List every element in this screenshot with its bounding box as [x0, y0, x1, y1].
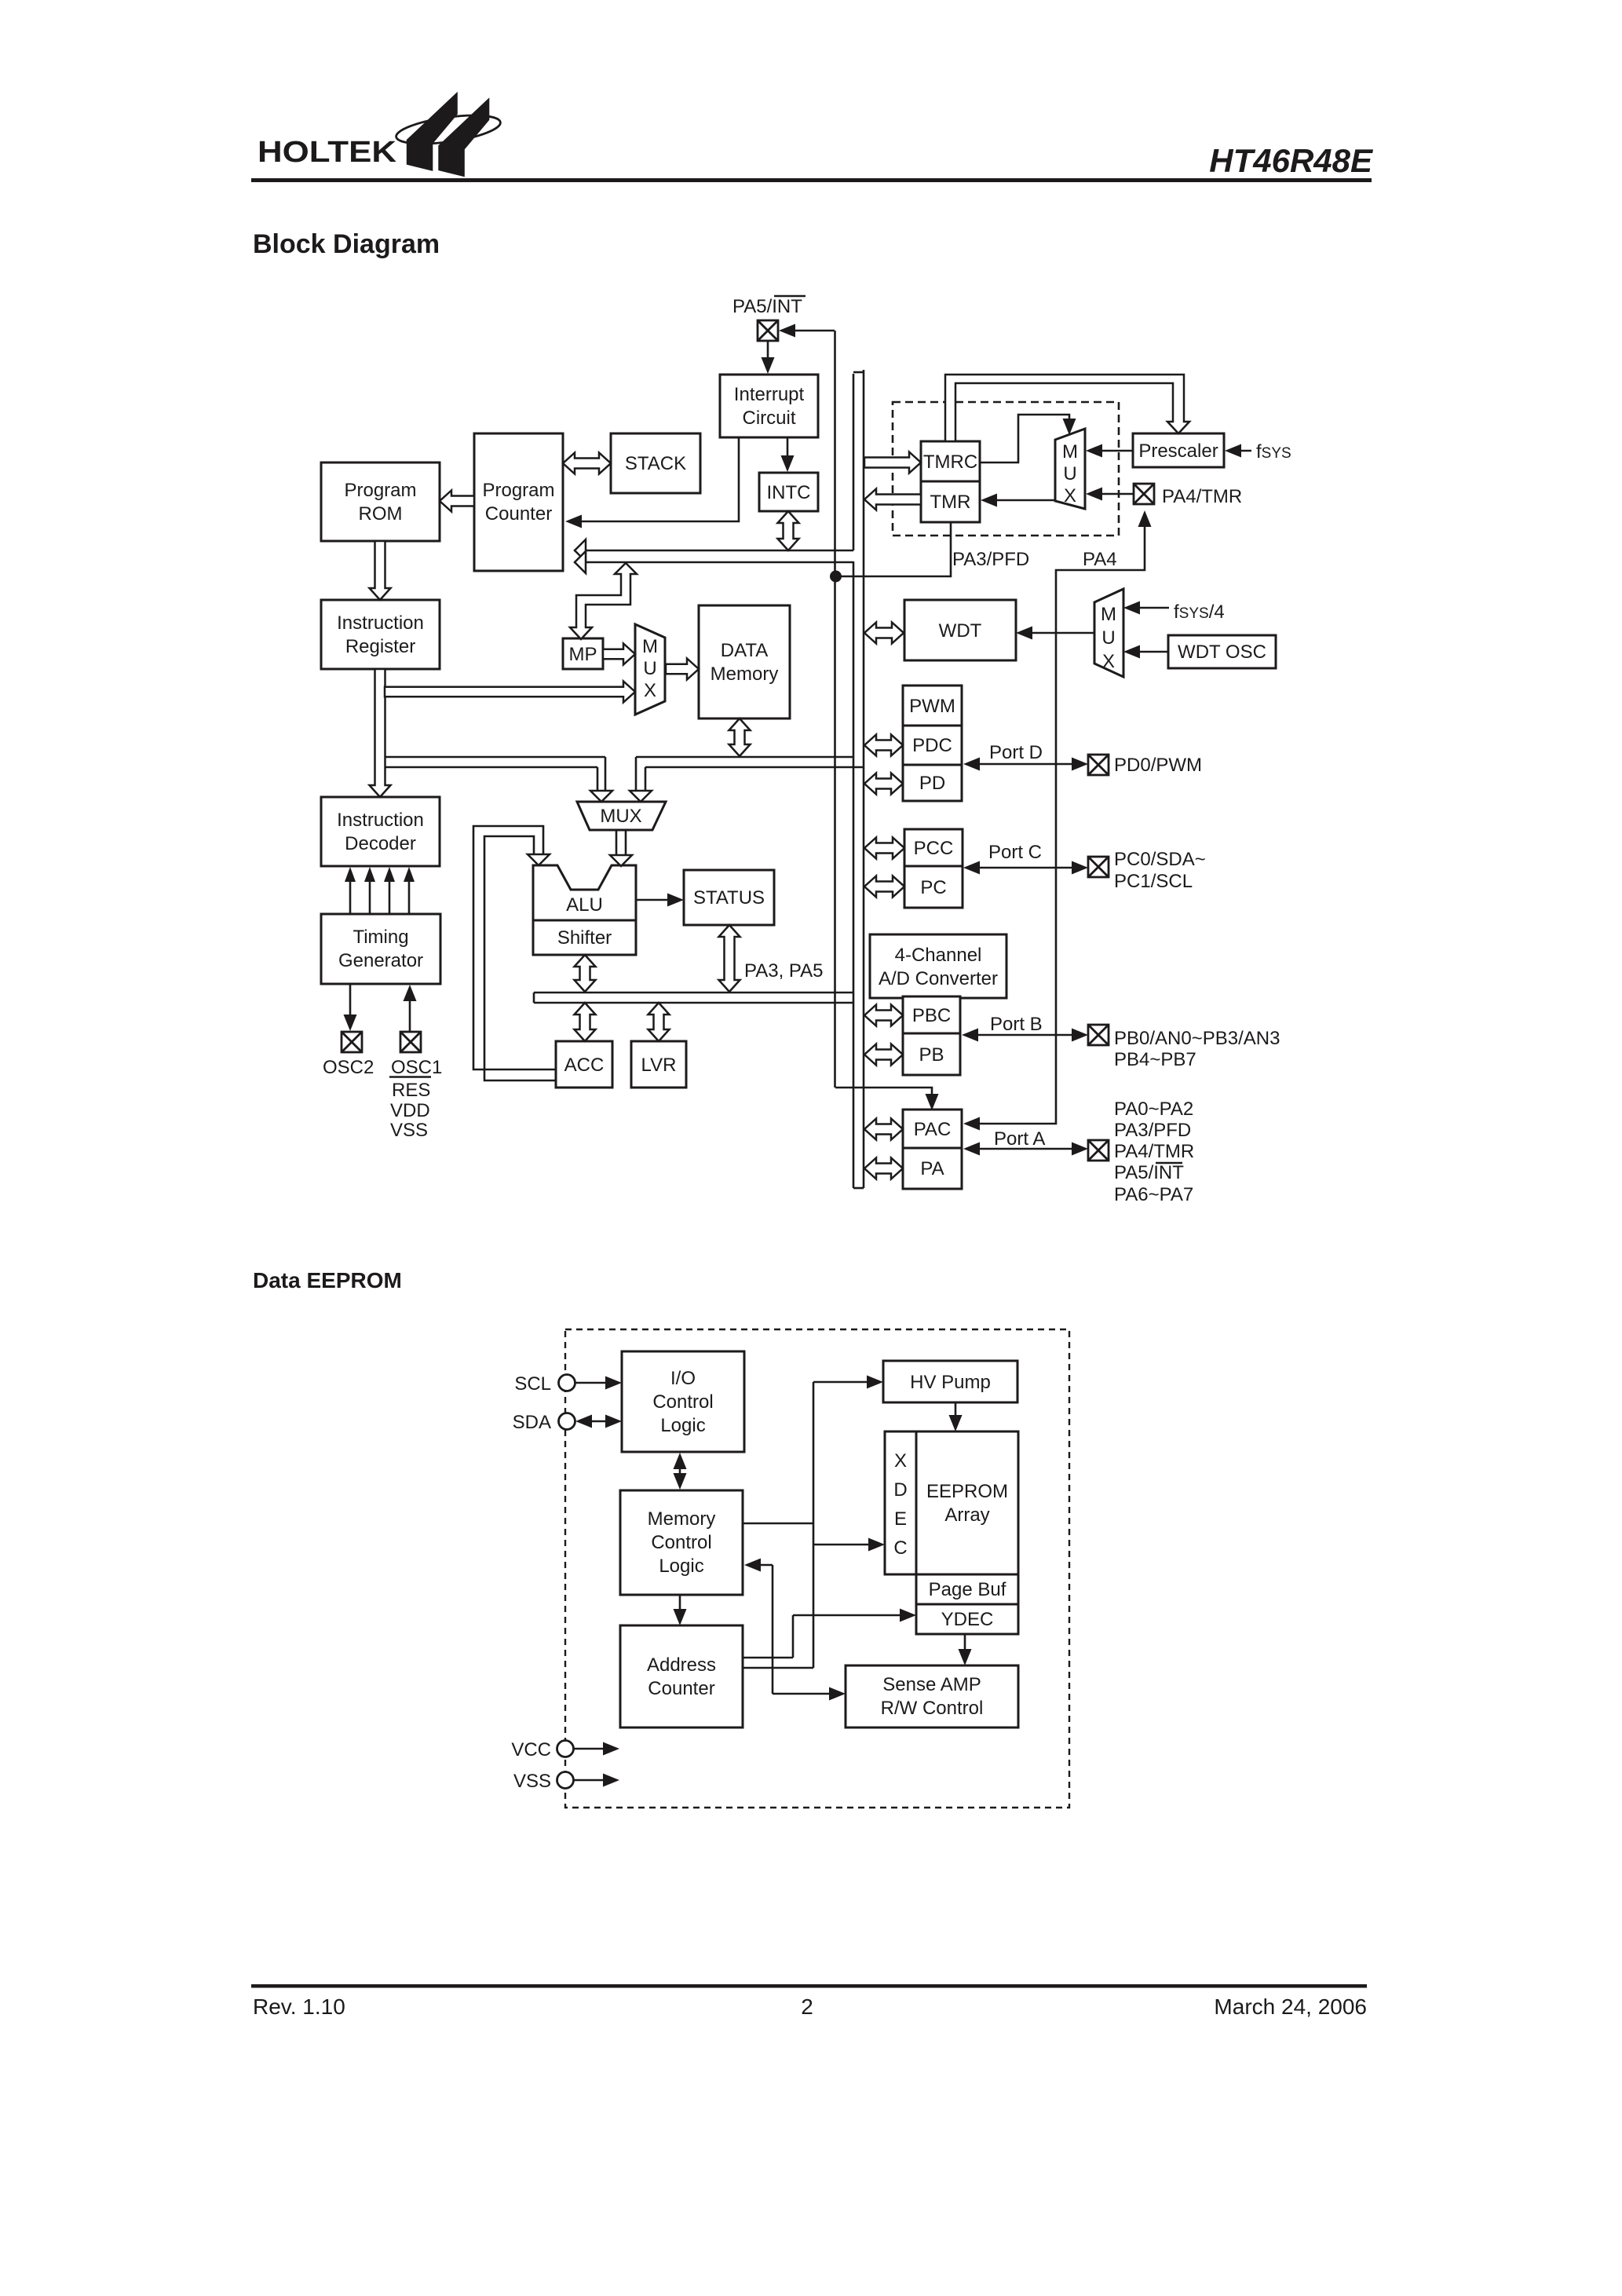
svg-text:Generator: Generator: [338, 950, 423, 971]
svg-text:TMR: TMR: [930, 492, 971, 513]
svg-text:PA4/TMR: PA4/TMR: [1162, 486, 1242, 507]
register TMR: [921, 481, 980, 522]
svg-text:PA5/INT: PA5/INT: [732, 296, 802, 317]
mux MUX2 (ALU operand mux): [577, 802, 666, 830]
svg-text:PC: PC: [920, 877, 946, 898]
svg-text:ACC: ACC: [564, 1055, 605, 1076]
svg-text:PDC: PDC: [912, 735, 952, 756]
bus program rom to instruction register: [370, 541, 391, 600]
pad PC0/PC1: [1088, 857, 1109, 877]
wire address counter to riser: [743, 1667, 813, 1669]
svg-text:March 24, 2006: March 24, 2006: [1214, 1994, 1367, 2019]
svg-text:STATUS: STATUS: [693, 887, 765, 909]
wire HV pump riser: [813, 1382, 815, 1668]
svg-text:Program: Program: [344, 480, 416, 501]
bus program counter to stack: [563, 453, 611, 474]
svg-text:ROM: ROM: [359, 503, 403, 525]
svg-text:WDT OSC: WDT OSC: [1178, 642, 1266, 663]
svg-text:PB0/AN0~PB3/AN3: PB0/AN0~PB3/AN3: [1114, 1028, 1280, 1049]
bus instruction register to instruction decoder: [370, 669, 391, 797]
svg-text:OSC2: OSC2: [323, 1057, 374, 1078]
wire ydec branch vertical: [792, 1615, 795, 1658]
bus internal bus to PAC: [864, 1119, 903, 1140]
wire OSC1 to timing generator: [409, 996, 411, 1032]
block WDT OSC: [1168, 635, 1276, 668]
bus operand corner into MUX2 left: [605, 757, 607, 790]
svg-text:E: E: [894, 1508, 907, 1530]
svg-text:Instruction: Instruction: [337, 612, 424, 634]
register PD: [903, 765, 962, 801]
svg-text:PA3/PFD: PA3/PFD: [952, 549, 1029, 570]
block Instruction Register: [321, 600, 440, 669]
svg-text:HV Pump: HV Pump: [910, 1372, 991, 1393]
bus internal bus to PCC: [864, 838, 904, 859]
svg-text:PD0/PWM: PD0/PWM: [1114, 755, 1202, 776]
wire Port B: [970, 1034, 1080, 1036]
svg-text:X: X: [894, 1450, 907, 1472]
wire riser to XDEC: [813, 1544, 875, 1546]
svg-text:PB4~PB7: PB4~PB7: [1114, 1049, 1196, 1070]
junction dot PA3/PFD to PA5 rail: [830, 571, 842, 583]
header rule: [251, 178, 1372, 182]
bus internal bus to TMRC: [864, 452, 921, 473]
wire ALU to STATUS: [636, 899, 673, 901]
pad PA0-PA7: [1088, 1140, 1109, 1161]
wire VSS stub: [574, 1779, 609, 1782]
wire feedback to memory control: [754, 1564, 773, 1567]
svg-text:X: X: [1064, 485, 1076, 506]
svg-text:PA: PA: [920, 1158, 944, 1179]
register PCC: [904, 829, 963, 866]
wire feedback to sense amp: [773, 1693, 835, 1695]
svg-text:Instruction: Instruction: [337, 810, 424, 831]
svg-text:HOLTEK: HOLTEK: [258, 136, 397, 169]
wire interrupt circuit to program counter: [578, 437, 739, 521]
svg-text:fSYS: fSYS: [1256, 441, 1291, 462]
wire pad PA4 to MUX3: [1094, 493, 1134, 495]
bus rail left edge lower: [853, 561, 855, 1188]
svg-text:Control: Control: [652, 1391, 713, 1413]
svg-text:Block Diagram: Block Diagram: [253, 229, 440, 259]
wire SDA to I/O control: [585, 1420, 612, 1423]
svg-text:STACK: STACK: [625, 453, 686, 474]
bus ACC recirculation to ALU: [473, 826, 556, 1069]
svg-text:ALU: ALU: [566, 894, 603, 916]
HOLTEK logo mark: [394, 92, 502, 177]
block Address Counter: [620, 1625, 743, 1727]
block Memory Control Logic: [620, 1490, 743, 1595]
wire timing generator to OSC2: [349, 984, 352, 1021]
block LVR: [631, 1041, 686, 1088]
block HV Pump: [883, 1361, 1017, 1402]
svg-text:YDEC: YDEC: [941, 1609, 994, 1630]
bus operand lower line right: [645, 766, 863, 769]
block STATUS: [684, 870, 774, 925]
wire ydec branch to YDEC: [793, 1614, 906, 1617]
bus internal bus to MP: [570, 563, 637, 639]
wire MUX4 to WDT: [1024, 632, 1094, 634]
pad PA4/TMR: [1134, 484, 1154, 504]
svg-text:EEPROM: EEPROM: [926, 1481, 1008, 1502]
block EEPROM Array: [916, 1431, 1018, 1574]
block I/O Control Logic: [622, 1351, 744, 1452]
svg-text:U: U: [643, 658, 656, 679]
svg-text:Control: Control: [651, 1532, 711, 1553]
svg-text:VSS: VSS: [390, 1120, 428, 1141]
svg-text:D: D: [893, 1479, 907, 1501]
timer module dashed box: [893, 402, 1119, 536]
svg-text:Port D: Port D: [989, 742, 1043, 763]
svg-text:Program: Program: [482, 480, 554, 501]
block Instruction Decoder: [321, 797, 440, 866]
svg-text:INTC: INTC: [767, 482, 811, 503]
pad PD0/PWM: [1088, 755, 1109, 775]
svg-text:DATA: DATA: [721, 640, 768, 661]
wire WDT OSC to MUX4: [1131, 651, 1168, 653]
svg-text:2: 2: [801, 1994, 813, 2019]
svg-text:Register: Register: [345, 636, 415, 657]
pin SDA: [559, 1413, 575, 1430]
bus rail right edge: [863, 370, 865, 1188]
bus MUX1 to data memory: [666, 659, 699, 680]
svg-text:X: X: [1102, 651, 1115, 672]
svg-text:Memory: Memory: [711, 664, 779, 685]
wire PA4 line: [972, 514, 1145, 1124]
wire interrupt circuit to INTC: [787, 437, 789, 460]
wire riser to HV pump: [813, 1381, 873, 1384]
wire TMRC to MUX3: [980, 415, 1069, 462]
wire YDEC to sense amp: [964, 1634, 966, 1655]
block Page Buf: [916, 1574, 1018, 1604]
svg-text:Page Buf: Page Buf: [929, 1579, 1006, 1600]
svg-text:WDT: WDT: [939, 620, 982, 642]
svg-text:Circuit: Circuit: [742, 408, 795, 429]
svg-text:Logic: Logic: [660, 1415, 705, 1436]
bus line A to program counter: [574, 550, 853, 552]
block INTC: [759, 473, 818, 511]
svg-text:Counter: Counter: [485, 503, 552, 525]
svg-text:Timing: Timing: [353, 927, 408, 948]
bus instruction register to MUX1: [385, 682, 635, 703]
pin VCC: [557, 1741, 574, 1757]
wire memory control to address counter: [679, 1595, 681, 1616]
bus TMRC to prescaler loop: [945, 375, 1189, 441]
bus line B to program counter: [574, 561, 853, 564]
wire pad PA5 to interrupt circuit: [767, 341, 769, 361]
block STACK: [611, 433, 700, 493]
svg-text:RES: RES: [392, 1080, 430, 1101]
register PC: [904, 866, 963, 908]
bus internal bus to WDT: [864, 623, 904, 644]
pin SCL: [559, 1375, 575, 1391]
svg-text:U: U: [1063, 463, 1076, 484]
bus TMR to internal bus: [864, 489, 921, 510]
svg-text:VDD: VDD: [390, 1100, 430, 1121]
wire PA5 rail to PAC top: [835, 1088, 932, 1106]
svg-text:fSYS/4: fSYS/4: [1174, 601, 1225, 623]
svg-text:LVR: LVR: [641, 1055, 677, 1076]
bus STATUS to data bus: [719, 925, 740, 992]
svg-text:M: M: [1062, 441, 1078, 462]
svg-text:U: U: [1101, 627, 1115, 649]
block DATA Memory: [699, 605, 790, 718]
ALU unit: [533, 865, 636, 920]
block MP: [563, 638, 603, 669]
svg-text:Address: Address: [647, 1654, 716, 1676]
bus data bus to LVR: [648, 1003, 670, 1041]
mux MUX1 (data memory address mux): [635, 624, 665, 715]
svg-text:M: M: [642, 636, 658, 657]
svg-text:VCC: VCC: [511, 1739, 551, 1760]
svg-text:PBC: PBC: [912, 1005, 951, 1026]
bus ALU data bus upper line: [534, 992, 853, 994]
svg-text:A/D Converter: A/D Converter: [879, 968, 998, 989]
block ACC: [556, 1041, 612, 1088]
bus data memory to operand bus: [729, 718, 751, 756]
register PA: [903, 1148, 962, 1189]
wire prescaler to MUX3: [1094, 450, 1133, 452]
bus shifter to data bus: [575, 955, 596, 992]
svg-text:OSC1: OSC1: [391, 1057, 442, 1078]
pad OSC1: [400, 1032, 421, 1052]
bus MUX2 to ALU: [616, 830, 618, 857]
svg-text:Port A: Port A: [994, 1128, 1045, 1150]
register PBC: [903, 996, 960, 1033]
block XDEC: [885, 1431, 916, 1574]
wire timing generator to instruction decoder: [349, 878, 352, 914]
svg-text:4-Channel: 4-Channel: [895, 945, 982, 966]
svg-text:PC0/SDA~: PC0/SDA~: [1114, 849, 1206, 870]
bus internal bus to PA: [864, 1158, 903, 1179]
bus rail left edge upper: [853, 374, 855, 550]
pad PB0-PB7: [1088, 1025, 1109, 1045]
wire memory control to HV pump net: [743, 1523, 813, 1525]
svg-text:R/W Control: R/W Control: [881, 1698, 984, 1719]
svg-text:PA6~PA7: PA6~PA7: [1114, 1184, 1193, 1205]
block Timing Generator: [321, 914, 440, 984]
bus INTC to internal bus: [778, 511, 799, 550]
bus internal bus to PB: [864, 1044, 903, 1066]
svg-text:Port C: Port C: [988, 842, 1042, 863]
bus operand corner into MUX2 right: [635, 757, 637, 790]
register TMRC: [921, 441, 980, 481]
svg-text:VSS: VSS: [513, 1771, 551, 1792]
wire MUX3 to TMR: [988, 499, 1055, 502]
mux MUX4 (WDT clock mux): [1094, 589, 1123, 677]
svg-text:M: M: [1101, 604, 1116, 625]
block 4-Channel A/D Converter: [870, 934, 1006, 998]
svg-text:PA3, PA5: PA3, PA5: [744, 960, 824, 982]
svg-text:Interrupt: Interrupt: [734, 384, 805, 405]
pin VSS: [557, 1772, 574, 1789]
wire Port C: [972, 867, 1080, 869]
register PAC: [903, 1110, 962, 1148]
svg-text:I/O: I/O: [670, 1368, 696, 1389]
pad PA5/INT: [758, 320, 778, 341]
block Program ROM: [321, 462, 440, 541]
bus internal bus to PBC: [864, 1005, 903, 1026]
svg-text:Array: Array: [944, 1504, 989, 1526]
register PDC: [903, 726, 962, 765]
Shifter unit: [533, 920, 636, 955]
block WDT: [904, 600, 1016, 660]
wire Port D: [972, 763, 1080, 766]
bus operand lower line left: [385, 766, 597, 769]
svg-text:PA0~PA2: PA0~PA2: [1114, 1099, 1193, 1120]
svg-text:MP: MP: [569, 644, 597, 665]
bus ALU data bus left cap: [533, 993, 535, 1003]
pad OSC2: [342, 1032, 362, 1052]
svg-text:PC1/SCL: PC1/SCL: [1114, 871, 1193, 892]
svg-text:MUX: MUX: [600, 806, 641, 827]
svg-text:Prescaler: Prescaler: [1138, 441, 1218, 462]
block Prescaler: [1133, 433, 1224, 467]
wire PA3-PA5 rail: [834, 331, 836, 1088]
wire pad PA5 to rail: [784, 330, 835, 332]
wire feedback vertical: [772, 1565, 774, 1694]
register PB: [903, 1033, 960, 1075]
svg-text:Sense AMP: Sense AMP: [882, 1674, 981, 1695]
block Program Counter: [474, 433, 563, 571]
bus operand upper line left: [385, 756, 605, 759]
footer rule: [251, 1984, 1367, 1988]
EEPROM dashed enclosure: [565, 1329, 1069, 1808]
svg-text:Memory: Memory: [648, 1508, 716, 1530]
svg-text:Data EEPROM: Data EEPROM: [253, 1268, 402, 1292]
wire HV pump to EEPROM array: [955, 1402, 957, 1422]
svg-text:TMRC: TMRC: [923, 452, 977, 473]
svg-text:PA3/PFD: PA3/PFD: [1114, 1120, 1191, 1141]
bus rail bottom cap: [853, 1187, 864, 1190]
block Interrupt Circuit: [720, 375, 818, 437]
bus ALU data bus lower line: [534, 1002, 853, 1004]
wire Port A: [972, 1148, 1080, 1150]
svg-text:SDA: SDA: [513, 1412, 551, 1433]
bus data bus to ACC: [575, 1003, 596, 1041]
bus internal bus to PD: [864, 773, 903, 795]
svg-text:Shifter: Shifter: [557, 927, 612, 949]
svg-text:Rev. 1.10: Rev. 1.10: [253, 1994, 345, 2019]
register PWM: [903, 686, 962, 726]
bus program counter to program rom: [440, 491, 474, 512]
svg-text:Counter: Counter: [648, 1678, 714, 1699]
label RES with overline: [389, 1076, 431, 1077]
svg-text:PA4: PA4: [1083, 549, 1117, 570]
svg-text:PA4/TMR: PA4/TMR: [1114, 1141, 1194, 1162]
svg-text:SCL: SCL: [514, 1373, 551, 1395]
svg-text:Decoder: Decoder: [345, 833, 416, 854]
wire fsys/4 to MUX4: [1131, 607, 1169, 609]
svg-text:PD: PD: [919, 773, 945, 794]
svg-text:X: X: [644, 680, 656, 701]
svg-text:PB: PB: [919, 1044, 944, 1066]
mux MUX3 (timer clock mux): [1055, 429, 1085, 509]
bus rail top cap: [853, 371, 864, 374]
svg-text:C: C: [893, 1537, 907, 1559]
block Sense AMP R/W Control: [846, 1665, 1018, 1727]
bus operand upper line right: [636, 756, 853, 759]
wire fsys to prescaler: [1233, 450, 1251, 452]
wire SCL to I/O control: [575, 1382, 612, 1384]
wire I/O control to memory control: [679, 1462, 681, 1480]
svg-text:PCC: PCC: [914, 838, 954, 859]
bus internal bus to PDC: [864, 735, 903, 756]
wire TMR to PA3/PFD rail: [836, 522, 951, 576]
wire VCC stub: [574, 1748, 609, 1750]
svg-text:Logic: Logic: [659, 1556, 703, 1577]
block YDEC: [916, 1604, 1018, 1634]
svg-text:PWM: PWM: [909, 696, 955, 717]
bus MP to MUX1: [603, 644, 635, 665]
wire address counter feedback horizontal: [743, 1657, 793, 1659]
bus internal bus to PC: [864, 876, 904, 898]
svg-text:PAC: PAC: [914, 1119, 952, 1140]
svg-text:HT46R48E: HT46R48E: [1209, 142, 1374, 179]
svg-text:Port B: Port B: [990, 1014, 1043, 1035]
svg-text:PA5/INT: PA5/INT: [1114, 1162, 1184, 1183]
